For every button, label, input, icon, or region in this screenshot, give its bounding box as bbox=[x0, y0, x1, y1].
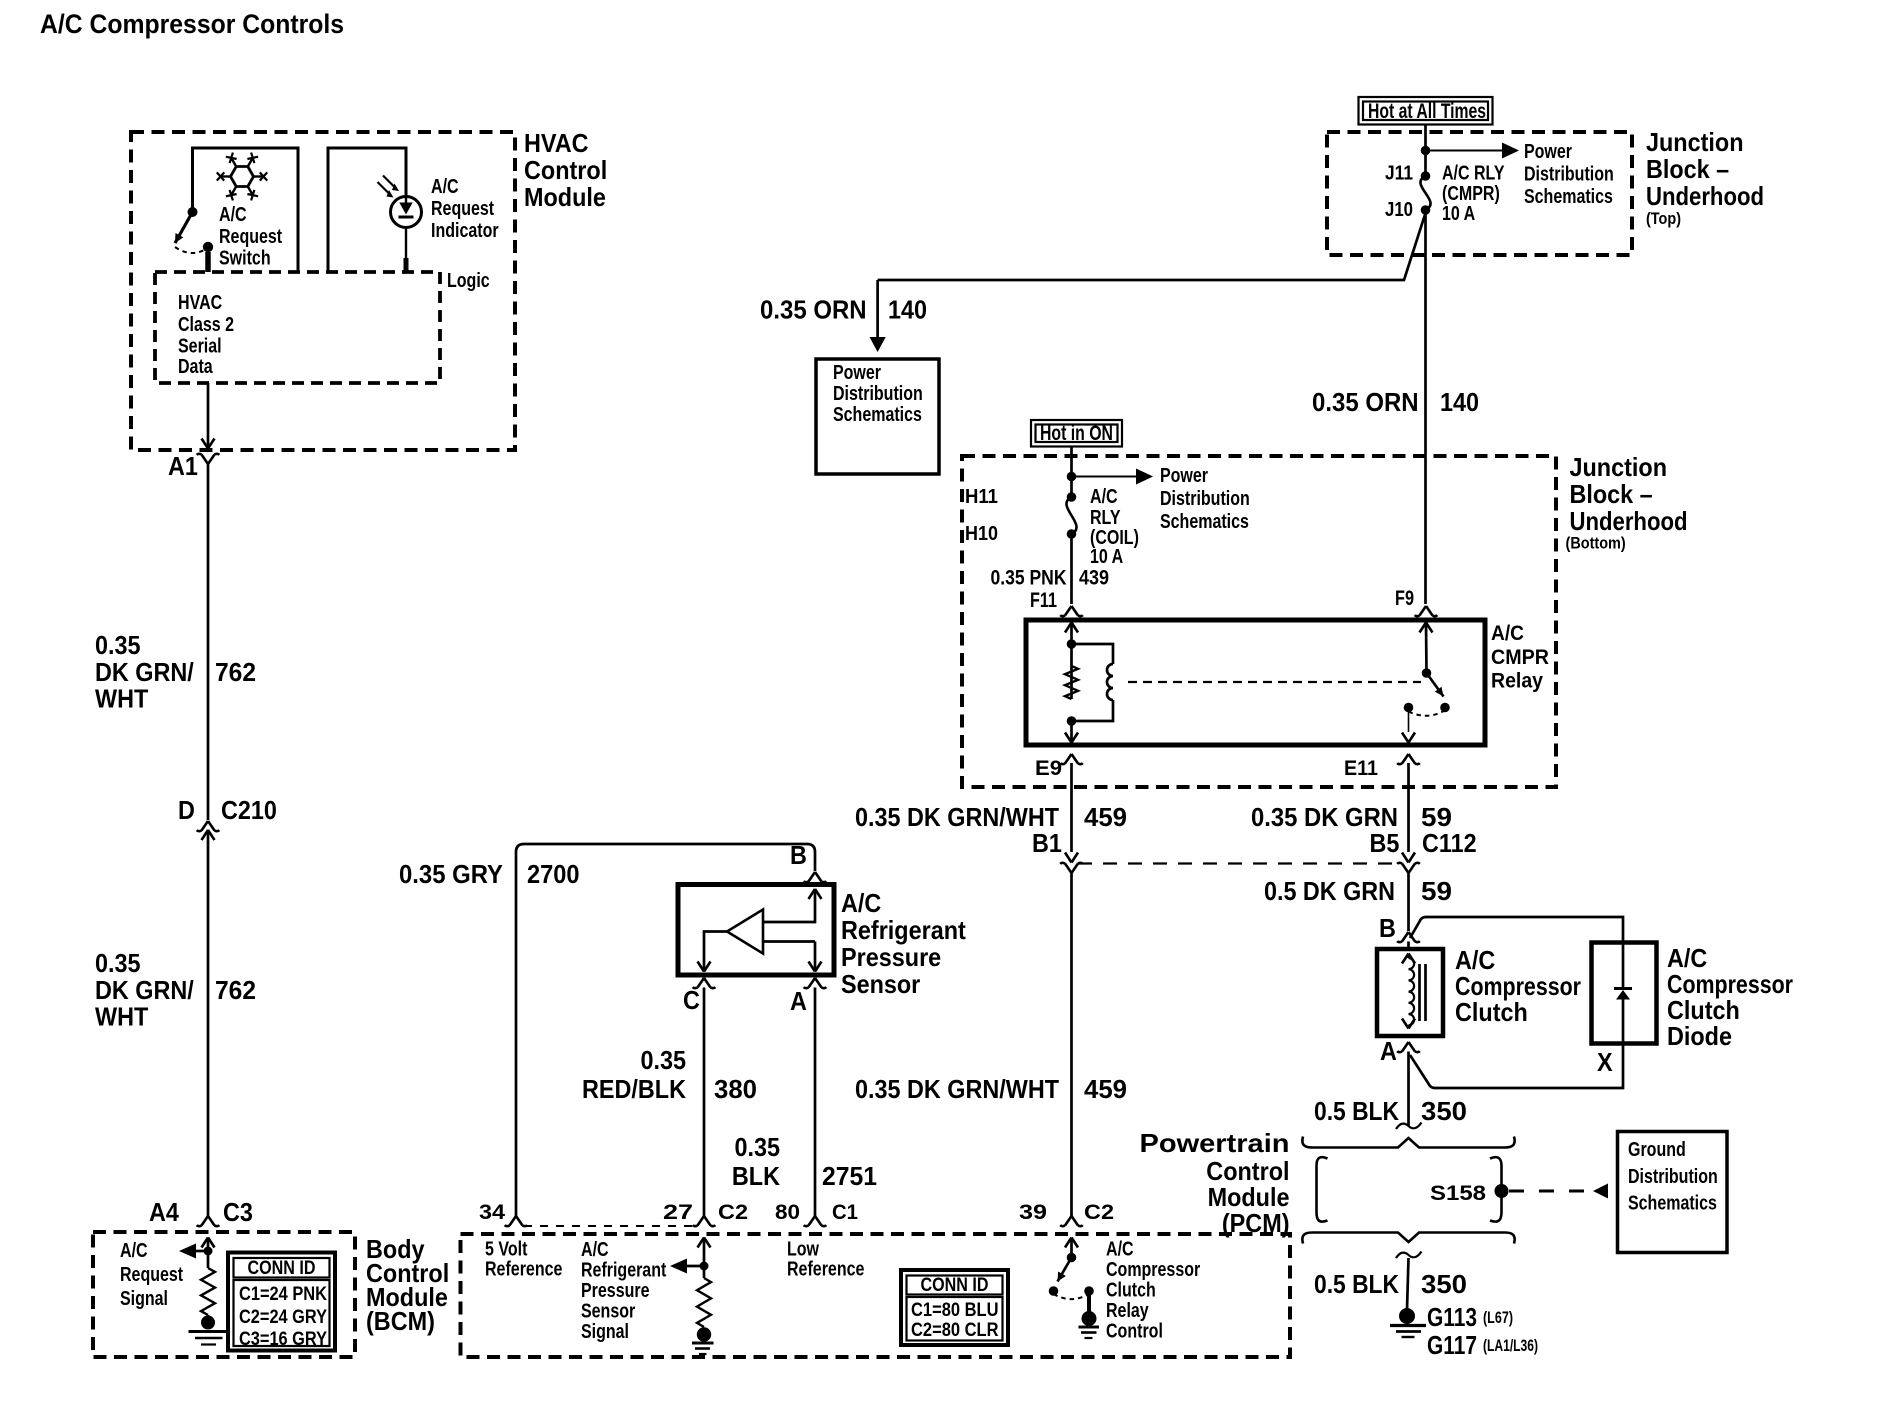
A/C Request Switch label bbox=[219, 204, 282, 270]
svg-text:HVAC: HVAC bbox=[524, 128, 589, 158]
svg-text:Class 2: Class 2 bbox=[178, 314, 234, 336]
connector A fork bbox=[1397, 1042, 1420, 1052]
svg-text:Power: Power bbox=[833, 362, 881, 384]
HVAC Control Module label bbox=[524, 128, 607, 212]
svg-text:Powertrain: Powertrain bbox=[1140, 1128, 1290, 1158]
svg-text:Serial: Serial bbox=[178, 336, 222, 358]
PCM entry arrow pin 27 bbox=[698, 1238, 711, 1279]
ground (PCM clutch control) bbox=[1079, 1311, 1100, 1338]
fuse A/C RLY (COIL) 10A bbox=[1066, 492, 1076, 539]
svg-text:J10: J10 bbox=[1385, 199, 1413, 221]
label F11 bbox=[1030, 589, 1057, 612]
relay switch bbox=[1402, 668, 1450, 742]
svg-text:E11: E11 bbox=[1344, 757, 1378, 780]
svg-text:Distribution: Distribution bbox=[1628, 1166, 1718, 1188]
svg-text:80: 80 bbox=[775, 1201, 800, 1224]
svg-text:762: 762 bbox=[215, 657, 256, 687]
svg-text:Request: Request bbox=[219, 226, 282, 248]
svg-text:Compressor: Compressor bbox=[1106, 1259, 1200, 1281]
clutch diode bbox=[1614, 943, 1632, 1044]
Body Control Module (BCM) label bbox=[366, 1234, 449, 1336]
svg-text:B: B bbox=[1379, 913, 1396, 943]
A/C request indicator box bbox=[328, 148, 406, 272]
svg-text:140: 140 bbox=[888, 295, 927, 325]
A/C Request Indicator label bbox=[431, 176, 499, 242]
svg-text:RED/BLK: RED/BLK bbox=[582, 1074, 686, 1104]
labels H11 H10 bbox=[965, 486, 998, 545]
label 0.35 DK GRN 59 bbox=[1251, 802, 1452, 832]
svg-text:0.35 DK GRN/WHT: 0.35 DK GRN/WHT bbox=[855, 802, 1059, 832]
splice S158 right bundle bracket bbox=[1490, 1157, 1502, 1222]
svg-text:Distribution: Distribution bbox=[1524, 164, 1614, 186]
svg-text:0.35 ORN: 0.35 ORN bbox=[1312, 387, 1419, 417]
Low Reference label bbox=[787, 1239, 864, 1281]
Powertrain Control Module box bbox=[461, 1234, 1291, 1357]
label 0.5 DK GRN 59 bbox=[1264, 876, 1452, 906]
A/C Request Signal label bbox=[120, 1240, 183, 1310]
svg-text:(L67): (L67) bbox=[1483, 1308, 1513, 1327]
svg-text:350: 350 bbox=[1421, 1269, 1467, 1299]
connector C2 dashed link 34-27 bbox=[524, 1225, 696, 1227]
ground (BCM) bbox=[189, 1315, 230, 1345]
svg-text:CMPR: CMPR bbox=[1491, 646, 1549, 669]
label E11 bbox=[1344, 757, 1378, 780]
svg-text:RLY: RLY bbox=[1090, 507, 1121, 529]
splice S158 bottom brace bbox=[1302, 1233, 1514, 1244]
svg-text:Signal: Signal bbox=[581, 1321, 629, 1343]
label pin 34 bbox=[479, 1201, 505, 1224]
svg-text:A/C: A/C bbox=[1491, 622, 1524, 645]
label G117 (LA1/L36) bbox=[1427, 1330, 1538, 1360]
svg-text:459: 459 bbox=[1084, 802, 1127, 832]
svg-text:Junction: Junction bbox=[1570, 452, 1668, 482]
label B bbox=[1379, 913, 1396, 943]
wire 5V reference loop (2700) bbox=[516, 844, 815, 1216]
svg-text:0.35 GRY: 0.35 GRY bbox=[399, 859, 503, 889]
svg-text:39: 39 bbox=[1019, 1201, 1047, 1224]
wire B to clutch bbox=[1407, 942, 1410, 950]
svg-text:C2: C2 bbox=[1084, 1201, 1114, 1224]
A/C request switch S1 bbox=[175, 207, 213, 272]
label F9 bbox=[1395, 587, 1414, 610]
wire Hot in ON feed bbox=[1070, 447, 1073, 498]
svg-text:Reference: Reference bbox=[787, 1259, 864, 1281]
label 0.35 DK GRN/WHT 459 (upper) bbox=[855, 802, 1127, 832]
wire branch to clutch diode bbox=[1410, 917, 1623, 943]
svg-text:439: 439 bbox=[1079, 567, 1109, 590]
HVAC Class 2 Serial Data label bbox=[178, 292, 234, 378]
svg-text:C2: C2 bbox=[718, 1201, 748, 1224]
CONN ID table (BCM) bbox=[228, 1253, 335, 1351]
BCM entry arrow pin A4 bbox=[202, 1238, 215, 1269]
svg-text:(LA1/L36): (LA1/L36) bbox=[1483, 1336, 1538, 1355]
5 Volt Reference label bbox=[485, 1239, 562, 1281]
svg-text:59: 59 bbox=[1421, 876, 1452, 906]
svg-text:A1: A1 bbox=[168, 451, 198, 481]
wire E11 to B5 bbox=[1402, 763, 1415, 863]
label A bbox=[1380, 1036, 1397, 1066]
svg-text:C210: C210 bbox=[221, 795, 277, 825]
svg-text:0.35: 0.35 bbox=[641, 1045, 687, 1075]
svg-text:B5: B5 bbox=[1370, 828, 1400, 858]
splice S158 left bundle bracket bbox=[1317, 1157, 1328, 1222]
svg-text:G117: G117 bbox=[1427, 1330, 1477, 1360]
svg-text:C: C bbox=[683, 985, 700, 1015]
svg-text:C112: C112 bbox=[1422, 828, 1477, 858]
Hot in ON box bbox=[1031, 420, 1122, 447]
connector pin 27 fork bbox=[693, 1216, 716, 1226]
label pin 27 C2 bbox=[663, 1201, 748, 1224]
A/C Compressor Clutch Diode label bbox=[1667, 943, 1793, 1051]
snowflake icon bbox=[217, 153, 267, 201]
connector E11 fork bbox=[1397, 754, 1420, 764]
svg-text:0.5 BLK: 0.5 BLK bbox=[1314, 1269, 1399, 1299]
node to power distribution (bottom) bbox=[1067, 469, 1153, 485]
clutch coil bbox=[1402, 954, 1415, 1029]
svg-text:Underhood: Underhood bbox=[1646, 181, 1764, 211]
svg-text:0.35 DK GRN/WHT: 0.35 DK GRN/WHT bbox=[855, 1074, 1059, 1104]
clutch plates bbox=[1420, 964, 1426, 1021]
svg-text:A: A bbox=[790, 986, 807, 1016]
Logic box bbox=[155, 272, 440, 383]
label A4 C3 bbox=[149, 1197, 253, 1227]
svg-text:0.5 DK GRN: 0.5 DK GRN bbox=[1264, 876, 1395, 906]
svg-text:(CMPR): (CMPR) bbox=[1442, 183, 1500, 205]
wire diode return branch bbox=[1410, 1044, 1623, 1089]
wire fuse to relay coil bbox=[1070, 534, 1073, 604]
labels J11 J10 bbox=[1385, 163, 1413, 222]
svg-text:S158: S158 bbox=[1430, 1182, 1486, 1205]
relay coil winding branch bbox=[1072, 644, 1114, 721]
label 0.35 ORN 140 (right) bbox=[1312, 387, 1479, 417]
label 0.35 DK GRN/WHT 459 (lower) bbox=[855, 1074, 1127, 1104]
label B1 bbox=[1032, 828, 1062, 858]
svg-text:Indicator: Indicator bbox=[431, 220, 499, 242]
svg-text:A/C: A/C bbox=[1090, 486, 1118, 508]
connector F11 fork bbox=[1060, 606, 1083, 616]
label 0.5 BLK 350 (lower) bbox=[1314, 1269, 1467, 1299]
connector F9 fork bbox=[1415, 606, 1438, 616]
wire A down bbox=[1407, 1052, 1410, 1127]
svg-text:C3=16 GRY: C3=16 GRY bbox=[239, 1329, 327, 1350]
node: sensor signal bbox=[670, 1259, 709, 1274]
svg-text:0.5 BLK: 0.5 BLK bbox=[1314, 1096, 1399, 1126]
svg-text:Clutch: Clutch bbox=[1455, 997, 1528, 1027]
svg-text:H11: H11 bbox=[965, 486, 998, 508]
wire break (below splice) bbox=[1396, 1252, 1422, 1259]
svg-text:10 A: 10 A bbox=[1442, 203, 1475, 225]
svg-text:2751: 2751 bbox=[822, 1161, 877, 1191]
svg-text:Hot in ON: Hot in ON bbox=[1040, 422, 1113, 445]
CONN ID table (PCM) bbox=[901, 1270, 1008, 1345]
A/C Compressor Clutch box bbox=[1377, 949, 1443, 1036]
svg-text:A/C: A/C bbox=[219, 204, 247, 226]
node: A/C request signal bbox=[179, 1244, 213, 1259]
A/C CMPR Relay label bbox=[1491, 622, 1549, 693]
svg-text:B1: B1 bbox=[1032, 828, 1062, 858]
svg-text:Sensor: Sensor bbox=[581, 1301, 635, 1323]
label A (sensor) bbox=[790, 986, 807, 1016]
svg-text:D: D bbox=[178, 795, 195, 825]
connector A4/C3 fork bbox=[197, 1216, 220, 1226]
svg-text:F11: F11 bbox=[1030, 589, 1057, 612]
relay switch input pin F9 arrow bbox=[1420, 623, 1433, 674]
svg-text:380: 380 bbox=[714, 1074, 757, 1104]
svg-text:E9: E9 bbox=[1035, 757, 1062, 780]
svg-text:DK GRN/: DK GRN/ bbox=[95, 975, 194, 1005]
node to power distribution (top) bbox=[1421, 143, 1519, 159]
svg-text:0.35: 0.35 bbox=[95, 630, 141, 660]
svg-text:HVAC: HVAC bbox=[178, 292, 222, 314]
svg-text:WHT: WHT bbox=[95, 684, 148, 714]
svg-text:C2=80 CLR: C2=80 CLR bbox=[911, 1320, 999, 1341]
svg-text:G113: G113 bbox=[1427, 1302, 1477, 1332]
svg-text:Signal: Signal bbox=[120, 1288, 168, 1310]
label C bbox=[683, 985, 700, 1015]
svg-text:B: B bbox=[790, 840, 807, 870]
svg-text:Schematics: Schematics bbox=[1160, 511, 1249, 533]
connector C fork bbox=[693, 978, 716, 988]
wire branch to power distribution box bbox=[870, 213, 1426, 352]
relay coil output to E9 bbox=[1065, 666, 1078, 743]
svg-text:Schematics: Schematics bbox=[833, 404, 922, 426]
svg-text:27: 27 bbox=[663, 1201, 693, 1224]
PCM entry arrow pin 39 bbox=[1065, 1238, 1078, 1258]
Powertrain Control Module (PCM) label bbox=[1140, 1128, 1290, 1238]
label 0.35 DK GRN/WHT 762 (upper) bbox=[95, 630, 256, 714]
connector B fork (sensor) bbox=[804, 872, 827, 882]
relay coil resistor branch bbox=[1065, 639, 1078, 726]
svg-text:Clutch: Clutch bbox=[1106, 1280, 1156, 1302]
svg-text:Data: Data bbox=[178, 356, 213, 378]
label 0.5 BLK 350 (upper) bbox=[1314, 1096, 1467, 1126]
wire break (above splice) bbox=[1396, 1123, 1422, 1130]
label 0.35 BLK 2751 bbox=[732, 1132, 877, 1191]
dashed reference to ground distribution bbox=[1509, 1184, 1608, 1199]
connector pin 80 fork bbox=[804, 1216, 827, 1226]
label pin 39 C2 bbox=[1019, 1201, 1114, 1224]
svg-text:(Top): (Top) bbox=[1646, 209, 1681, 228]
label X bbox=[1597, 1047, 1613, 1077]
label 0.35 GRY 2700 bbox=[399, 859, 580, 889]
svg-text:Ground: Ground bbox=[1628, 1139, 1686, 1161]
Power Distribution Schematics note (bottom) bbox=[1160, 465, 1250, 533]
svg-text:Relay: Relay bbox=[1491, 670, 1543, 693]
Hot at All Times box bbox=[1359, 97, 1493, 125]
wire C to PCM 27 bbox=[703, 988, 706, 1217]
label E9 bbox=[1035, 757, 1062, 780]
Power Distribution Schematics note (top) bbox=[1524, 141, 1614, 208]
svg-text:J11: J11 bbox=[1385, 163, 1413, 185]
svg-text:Hot at All Times: Hot at All Times bbox=[1368, 100, 1486, 123]
svg-text:A/C: A/C bbox=[120, 1240, 148, 1262]
label B (sensor) bbox=[790, 840, 807, 870]
svg-text:Module: Module bbox=[524, 182, 606, 212]
svg-text:(BCM): (BCM) bbox=[366, 1306, 435, 1336]
svg-text:Pressure: Pressure bbox=[841, 942, 941, 972]
wire E9 to B1 bbox=[1065, 763, 1078, 863]
A/C CMPR Relay box bbox=[1026, 620, 1485, 745]
Body Control Module box bbox=[93, 1232, 355, 1357]
svg-text:F9: F9 bbox=[1395, 587, 1414, 610]
label D C210 bbox=[178, 795, 277, 825]
A/C Refrigerant Pressure Sensor Signal label bbox=[581, 1239, 667, 1343]
Junction Block - Underhood (Bottom) label bbox=[1566, 452, 1688, 553]
resistor (PCM pull) bbox=[697, 1278, 711, 1327]
svg-text:A/C: A/C bbox=[581, 1239, 609, 1261]
svg-text:CONN ID: CONN ID bbox=[248, 1258, 316, 1279]
svg-text:(Bottom): (Bottom) bbox=[1566, 534, 1626, 553]
ground (PCM sensor) bbox=[692, 1327, 714, 1354]
Ground Distribution Schematics box bbox=[1618, 1132, 1728, 1253]
A/C Refrigerant Pressure Sensor box bbox=[678, 885, 834, 976]
wire HVAC output bbox=[202, 383, 215, 449]
svg-text:Block –: Block – bbox=[1570, 479, 1653, 509]
connector C210 bbox=[197, 821, 220, 840]
label B5 C112 bbox=[1370, 828, 1477, 858]
svg-text:Switch: Switch bbox=[219, 248, 271, 270]
relay coil input pin F11 arrow bbox=[1065, 623, 1078, 667]
wire from battery feed bbox=[1424, 125, 1427, 177]
svg-text:Schematics: Schematics bbox=[1628, 1193, 1717, 1215]
svg-text:140: 140 bbox=[1440, 387, 1479, 417]
title bbox=[40, 9, 344, 39]
Junction Block Underhood (Top) box bbox=[1327, 132, 1632, 255]
svg-text:0.35: 0.35 bbox=[735, 1132, 781, 1162]
connector B5 fork bbox=[1397, 863, 1420, 873]
svg-text:A: A bbox=[1380, 1036, 1397, 1066]
wire B1 to PCM 39 bbox=[1070, 873, 1073, 1216]
label 0.35 RED/BLK 380 bbox=[582, 1045, 757, 1104]
svg-text:(PCM): (PCM) bbox=[1222, 1208, 1290, 1238]
svg-text:C1=80 BLU: C1=80 BLU bbox=[911, 1300, 999, 1321]
svg-text:Logic: Logic bbox=[447, 270, 490, 292]
label A1 bbox=[168, 451, 198, 481]
fuse A/C RLY (CMPR) 10A bbox=[1420, 171, 1430, 215]
svg-text:Sensor: Sensor bbox=[841, 969, 920, 999]
svg-text:C1=24 PNK: C1=24 PNK bbox=[239, 1284, 327, 1305]
svg-text:A/C Compressor Controls: A/C Compressor Controls bbox=[40, 9, 344, 39]
svg-text:Reference: Reference bbox=[485, 1259, 562, 1281]
svg-text:350: 350 bbox=[1421, 1096, 1467, 1126]
svg-text:34: 34 bbox=[479, 1201, 505, 1224]
svg-text:Block –: Block – bbox=[1646, 154, 1729, 184]
svg-text:Power: Power bbox=[1160, 465, 1208, 487]
Junction Block Underhood (Bottom) box bbox=[962, 456, 1556, 787]
ground G113/G117 bbox=[1390, 1308, 1426, 1337]
svg-text:WHT: WHT bbox=[95, 1002, 148, 1032]
svg-text:BLK: BLK bbox=[732, 1161, 780, 1191]
relay actuation dashed link bbox=[1128, 681, 1421, 683]
connector pin 39 fork bbox=[1060, 1216, 1083, 1226]
A/C compressor clutch relay control switch bbox=[1049, 1253, 1094, 1313]
Junction Block - Underhood (Top) label bbox=[1646, 127, 1764, 228]
svg-text:Junction: Junction bbox=[1646, 127, 1744, 157]
svg-text:C3: C3 bbox=[223, 1197, 253, 1227]
svg-text:Pressure: Pressure bbox=[581, 1280, 650, 1302]
connector E9 fork bbox=[1060, 754, 1083, 764]
svg-text:CONN ID: CONN ID bbox=[921, 1275, 989, 1296]
A/C RLY (CMPR) 10 A label bbox=[1442, 163, 1505, 226]
label pin 80 C1 bbox=[775, 1201, 858, 1224]
sensor amplifier symbol bbox=[698, 889, 822, 972]
svg-text:Relay: Relay bbox=[1106, 1300, 1149, 1322]
label G113 (L67) bbox=[1427, 1302, 1513, 1332]
svg-text:10 A: 10 A bbox=[1090, 546, 1123, 568]
svg-text:0.35: 0.35 bbox=[95, 948, 141, 978]
svg-text:5 Volt: 5 Volt bbox=[485, 1239, 528, 1261]
wire to ground bbox=[1407, 1258, 1409, 1310]
svg-text:Schematics: Schematics bbox=[1524, 186, 1613, 208]
svg-text:Low: Low bbox=[787, 1239, 819, 1261]
label 0.35 PNK 439 bbox=[991, 567, 1110, 590]
connector A1 bbox=[197, 454, 220, 464]
connector B fork bbox=[1397, 932, 1420, 942]
svg-text:0.35 ORN: 0.35 ORN bbox=[760, 295, 867, 325]
A/C Compressor Clutch label bbox=[1455, 945, 1581, 1027]
svg-text:Power: Power bbox=[1524, 141, 1572, 163]
svg-text:DK GRN/: DK GRN/ bbox=[95, 657, 194, 687]
connector pin 34 fork bbox=[505, 1216, 528, 1226]
svg-text:Control: Control bbox=[524, 155, 607, 185]
wire 762 lower segment bbox=[207, 830, 210, 1216]
A/C Compressor Clutch Diode box bbox=[1592, 943, 1657, 1044]
svg-text:Diode: Diode bbox=[1667, 1021, 1732, 1051]
svg-text:762: 762 bbox=[215, 975, 256, 1005]
svg-text:C2=24 GRY: C2=24 GRY bbox=[239, 1307, 327, 1328]
Power Distribution Schematics box bbox=[816, 359, 939, 474]
svg-text:A/C: A/C bbox=[841, 888, 881, 918]
svg-text:Distribution: Distribution bbox=[833, 383, 923, 405]
resistor (BCM pull) bbox=[201, 1268, 215, 1315]
svg-text:Distribution: Distribution bbox=[1160, 488, 1250, 510]
svg-text:A/C RLY: A/C RLY bbox=[1442, 163, 1505, 185]
svg-text:459: 459 bbox=[1084, 1074, 1127, 1104]
Logic label bbox=[447, 270, 490, 292]
splice S158 node bbox=[1495, 1184, 1509, 1198]
wire A to PCM 80 bbox=[814, 988, 817, 1217]
label 0.35 DK GRN/WHT 762 (lower) bbox=[95, 948, 256, 1032]
A/C RLY (COIL) 10 A label bbox=[1090, 486, 1139, 568]
svg-text:Refrigerant: Refrigerant bbox=[841, 915, 966, 945]
svg-text:X: X bbox=[1597, 1047, 1613, 1077]
svg-text:Request: Request bbox=[120, 1264, 183, 1286]
HVAC Control Module box bbox=[131, 132, 515, 450]
LED A/C request indicator bbox=[378, 176, 422, 273]
wire 762 upper segment bbox=[207, 464, 210, 820]
splice S158 top brace bbox=[1302, 1137, 1514, 1148]
connector C112 dashed line bbox=[1078, 862, 1402, 864]
connector A fork (sensor) bbox=[804, 978, 827, 988]
svg-text:Refrigerant: Refrigerant bbox=[581, 1260, 667, 1282]
A/C Refrigerant Pressure Sensor label bbox=[841, 888, 966, 999]
connector B1 fork bbox=[1060, 863, 1083, 873]
svg-text:H10: H10 bbox=[965, 523, 998, 545]
svg-text:A4: A4 bbox=[149, 1197, 179, 1227]
A/C Compressor Clutch Relay Control label bbox=[1106, 1239, 1200, 1343]
A/C request switch box bbox=[193, 148, 299, 272]
svg-text:Underhood: Underhood bbox=[1570, 506, 1688, 536]
svg-text:Request: Request bbox=[431, 198, 494, 220]
label S158 bbox=[1430, 1182, 1486, 1205]
label 0.35 ORN 140 (left) bbox=[760, 295, 927, 325]
wire 140 down to junction bottom bbox=[1424, 210, 1427, 604]
svg-text:A/C: A/C bbox=[431, 176, 459, 198]
wire B5 to B bbox=[1407, 873, 1410, 931]
svg-text:C1: C1 bbox=[832, 1201, 858, 1224]
svg-text:0.35 PNK: 0.35 PNK bbox=[991, 567, 1067, 590]
svg-text:A/C: A/C bbox=[1106, 1239, 1134, 1261]
